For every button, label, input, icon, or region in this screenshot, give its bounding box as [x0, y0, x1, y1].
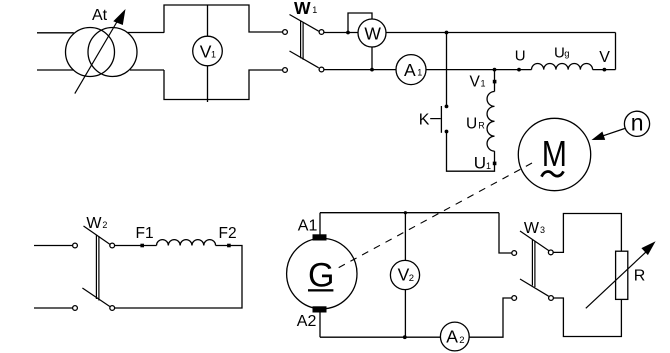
svg-text:1: 1: [486, 161, 491, 171]
resistor R body: [616, 251, 628, 299]
node F2: [227, 244, 231, 248]
speed indicator n circle: [624, 111, 649, 136]
wire wattmeter to right edge: [386, 32, 616, 34]
svg-text:1: 1: [481, 78, 486, 88]
terminal A2 block: [313, 306, 327, 312]
svg-text:U: U: [554, 44, 565, 61]
wire W2 to F1: [115, 245, 157, 247]
svg-text:U: U: [466, 116, 477, 133]
node V2 bottom: [403, 335, 407, 339]
svg-text:V: V: [470, 73, 481, 90]
inductor Ug: [532, 63, 593, 69]
wire A1 to stator line: [426, 69, 532, 71]
wire K bottom vertical: [447, 133, 495, 171]
wire supply top: [37, 32, 74, 34]
wire A2 to W3: [469, 298, 512, 337]
terminal V1 dot: [493, 80, 497, 84]
svg-text:1: 1: [417, 68, 422, 78]
motor tilde: [542, 171, 564, 176]
At adjustment arrow: [75, 18, 120, 94]
voltmeter V1: [193, 36, 223, 66]
motor M: [518, 118, 590, 190]
contact W3 right bottom: [549, 296, 554, 301]
contact W3 left bottom: [512, 296, 517, 301]
switch W2 contact bottom: [110, 306, 115, 311]
terminal circle field top: [73, 243, 78, 248]
svg-text:g: g: [564, 48, 569, 59]
autotransformer At right circle: [88, 28, 137, 77]
terminal circle top: [283, 30, 288, 35]
node wattmeter bottom: [370, 68, 374, 72]
node at wattmeter tap: [346, 31, 350, 35]
contact W3 right top: [548, 250, 553, 255]
wire right edge vertical: [615, 33, 617, 70]
switch W2 link: [96, 235, 99, 301]
V1 box top: [164, 5, 282, 33]
wattmeter drop wire: [371, 47, 373, 70]
V1 box bottom: [164, 70, 282, 100]
svg-text:R: R: [634, 267, 646, 284]
svg-text:A2: A2: [297, 313, 317, 330]
wire R loop top: [554, 214, 622, 253]
autotransformer At left circle: [66, 28, 115, 77]
wire Ug to V: [593, 69, 616, 71]
wattmeter voltage loop: [348, 13, 372, 33]
node V: [603, 68, 607, 72]
switch W3 link: [532, 240, 535, 288]
switch K bar: [440, 106, 442, 133]
rheostat arrow R: [586, 251, 647, 308]
field coil F: [157, 240, 216, 246]
wire W1 to wattmeter: [324, 32, 358, 34]
svg-text:n: n: [631, 110, 644, 136]
wattmeter W: [358, 19, 386, 47]
terminal circle field bottom: [73, 306, 78, 311]
svg-text:A: A: [404, 60, 416, 80]
contact K bottom dot: [445, 130, 449, 134]
svg-text:2: 2: [409, 273, 414, 284]
wire W1 to ammeter A1: [324, 69, 396, 71]
svg-text:F1: F1: [136, 225, 154, 242]
switch W1 blade top: [290, 15, 319, 32]
wire supply bottom: [37, 69, 74, 71]
resistor coil UR: [487, 92, 494, 152]
node junction K branch top: [445, 31, 449, 35]
contact K top dot: [445, 105, 449, 109]
svg-text:G: G: [308, 257, 334, 295]
switch W2 blade top: [84, 226, 110, 244]
svg-text:1: 1: [312, 5, 317, 15]
wire UR bottom: [494, 151, 496, 163]
svg-text:M: M: [542, 133, 567, 174]
svg-text:F2: F2: [219, 225, 237, 242]
switch W3 blade bottom: [520, 279, 549, 296]
switch W1 blade bottom: [290, 51, 319, 68]
svg-text:U: U: [515, 48, 526, 65]
svg-text:W: W: [364, 24, 381, 44]
wire generator top: [320, 212, 499, 214]
arrow n to M: [599, 129, 625, 138]
svg-text:W: W: [524, 220, 540, 237]
svg-text:K: K: [419, 111, 430, 128]
generator G circle: [287, 238, 357, 308]
svg-text:3: 3: [540, 225, 545, 235]
svg-text:R: R: [478, 121, 485, 131]
switch W1 link: [301, 21, 304, 60]
node U: [517, 68, 521, 72]
wire V2 branch: [404, 213, 406, 338]
svg-text:2: 2: [102, 220, 107, 230]
wire generator bottom: [320, 336, 440, 338]
V1 box centre vertical: [207, 5, 209, 102]
wire K branch vertical: [446, 33, 448, 105]
svg-text:V: V: [599, 49, 610, 66]
ammeter A2: [440, 322, 469, 351]
wire UR top: [494, 70, 496, 92]
node F1: [140, 244, 144, 248]
wire field supply bottom: [34, 307, 73, 309]
switch W3 blade top: [520, 231, 549, 251]
ammeter A1: [396, 55, 426, 85]
svg-text:W: W: [294, 0, 311, 18]
wire field supply top: [34, 245, 73, 247]
contact W3 left top: [512, 251, 517, 256]
wire F2 loop: [115, 246, 242, 309]
svg-text:U: U: [474, 154, 486, 173]
svg-text:2: 2: [459, 335, 464, 346]
switch W2 blade bottom: [82, 288, 109, 307]
svg-text:W: W: [86, 215, 102, 232]
terminal A1 block: [313, 234, 327, 240]
node V2 top: [404, 211, 407, 214]
svg-text:1: 1: [211, 50, 216, 60]
wire transformer to box bottom: [130, 69, 164, 71]
svg-text:A1: A1: [298, 218, 318, 235]
wire top to W3: [499, 213, 512, 253]
switch W1 contact bottom: [319, 67, 324, 72]
voltmeter V2: [390, 260, 419, 289]
node junction UR branch: [493, 68, 497, 72]
switch W1 contact top: [319, 30, 324, 35]
terminal circle bottom: [283, 68, 288, 73]
switch K actuator: [430, 118, 441, 120]
mechanical coupling dashed: [338, 163, 532, 268]
svg-text:V: V: [200, 42, 212, 62]
wire R loop bottom: [554, 298, 622, 337]
wire A1 terminal drop: [319, 213, 321, 235]
terminal U1 dot: [493, 162, 497, 166]
wire A2 drop: [319, 313, 321, 338]
svg-text:At: At: [92, 7, 108, 24]
wire transformer to box top: [128, 32, 164, 34]
G underline: [308, 289, 333, 291]
switch W2 contact top: [110, 243, 115, 248]
svg-text:A: A: [446, 327, 458, 347]
